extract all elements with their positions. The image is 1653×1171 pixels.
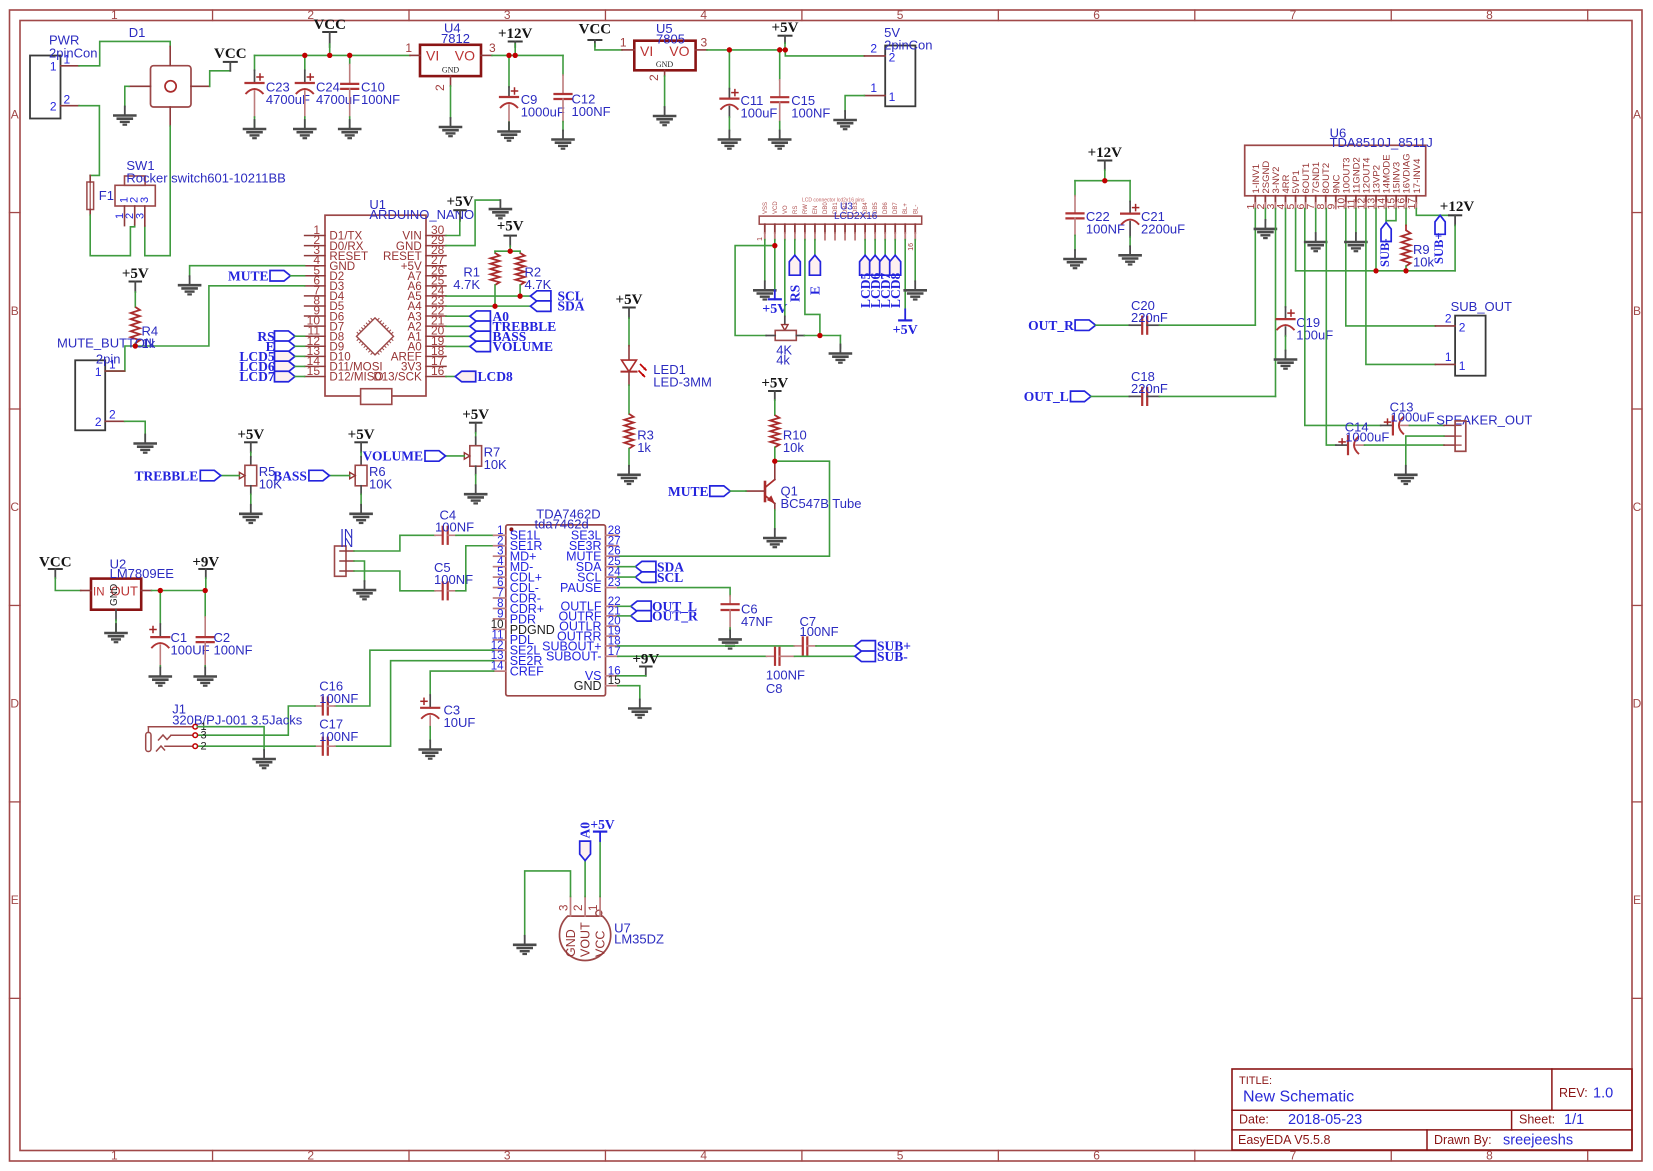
wire U6 pin5 to +12V rail bbox=[1295, 209, 1297, 271]
net flag SDA bbox=[530, 301, 551, 312]
junction dots top layer bbox=[302, 53, 307, 58]
net flag SUB- (U6) bbox=[1381, 223, 1391, 242]
net flag TREBBLE bbox=[470, 321, 491, 332]
svg-text:2: 2 bbox=[889, 51, 896, 65]
ground at D1 left bbox=[124, 107, 126, 116]
junction at C24 bbox=[302, 53, 307, 58]
svg-text:1: 1 bbox=[109, 358, 116, 372]
svg-text:+5V: +5V bbox=[762, 302, 787, 317]
net flag SDA (TDA) bbox=[635, 561, 656, 572]
net flag MUTE (Q1 base) bbox=[710, 486, 731, 497]
svg-text:GND: GND bbox=[574, 679, 602, 693]
net flag LCD6 (LCD) bbox=[870, 255, 881, 275]
capacitor C5 100NF bbox=[435, 590, 443, 592]
svg-text:3: 3 bbox=[139, 197, 151, 203]
wire U6 pin10 to SUB_OUT pin2 bbox=[1346, 209, 1436, 326]
wire C3 to ground bbox=[429, 727, 431, 741]
pin 1 of 5V connector bbox=[864, 95, 885, 97]
wire C11 top bbox=[728, 50, 730, 89]
wire U2 GND to ground bbox=[115, 620, 117, 633]
svg-text:+5V: +5V bbox=[893, 323, 918, 338]
svg-text:VOLUME: VOLUME bbox=[363, 449, 423, 464]
ground at C22 bbox=[1074, 250, 1076, 259]
microcontroller U1 ARDUINO_NANO bbox=[325, 215, 426, 396]
svg-text:100NF: 100NF bbox=[434, 572, 473, 587]
net flag LCD7 (LCD) bbox=[880, 255, 891, 275]
wire TDA PAUSE to C6 bbox=[618, 588, 730, 596]
wire U4 GND pin bbox=[450, 86, 452, 118]
net flag LCD7 bbox=[275, 371, 296, 382]
svg-text:GND: GND bbox=[109, 584, 120, 606]
svg-text:320B/PJ-001 3.5Jacks: 320B/PJ-001 3.5Jacks bbox=[172, 713, 303, 728]
svg-text:VO: VO bbox=[669, 43, 689, 59]
transistor Q1 BC547B bbox=[764, 482, 767, 501]
wire LCD6 flag to pin bbox=[295, 365, 305, 367]
wire U7 GND to ground bbox=[525, 871, 571, 936]
resistor R9 10k bbox=[1401, 230, 1410, 266]
wire C12 top bbox=[562, 55, 564, 75]
svg-text:2: 2 bbox=[870, 42, 877, 56]
wire IN pin1 to C4 bbox=[354, 535, 435, 551]
connector SUB_OUT bbox=[1455, 316, 1486, 376]
svg-text:sreejeeshs: sreejeeshs bbox=[1503, 1133, 1573, 1149]
wire U1 GND29 to ground bbox=[446, 200, 500, 245]
net flag A0 (U7) bbox=[580, 841, 591, 861]
svg-text:D: D bbox=[1633, 697, 1642, 711]
svg-text:3: 3 bbox=[489, 41, 496, 55]
svg-text:1: 1 bbox=[111, 1149, 118, 1163]
wire C15 top bbox=[779, 50, 781, 80]
svg-text:220nF: 220nF bbox=[1131, 381, 1168, 396]
wire R10 to Q1 collector bbox=[774, 447, 776, 461]
power amplifier U6 TDA8510J_8511J bbox=[1245, 145, 1426, 196]
wire C17 to J1 pin2 bbox=[197, 745, 315, 747]
wire A5 to SCL flag bbox=[446, 295, 530, 297]
junction C1 bbox=[158, 588, 163, 593]
LCD header U3 LCD2X16 bbox=[759, 216, 922, 224]
ground at R3 bbox=[628, 466, 630, 475]
net flag BASS bbox=[470, 331, 491, 342]
wire LCD pin6 EN bbox=[814, 240, 816, 256]
wire SPEAKER_OUT mid to ground bbox=[1406, 436, 1444, 466]
svg-text:2: 2 bbox=[1459, 321, 1466, 335]
wire +5V to LED1 bbox=[628, 318, 630, 346]
junction LCD VCD bbox=[772, 243, 777, 248]
svg-text:E: E bbox=[808, 286, 823, 295]
junction pot-RW bbox=[817, 333, 822, 338]
junction at C11 bbox=[727, 47, 732, 52]
svg-text:16: 16 bbox=[431, 364, 445, 378]
svg-text:IN: IN bbox=[340, 535, 353, 550]
svg-text:BC547B Tube: BC547B Tube bbox=[781, 496, 862, 511]
wire U1 GND4 to ground bbox=[190, 266, 305, 276]
wire C10 bottom bbox=[349, 117, 351, 129]
svg-text:100uF: 100uF bbox=[741, 106, 778, 121]
junction R2-SCL bbox=[518, 294, 523, 299]
wire U6 pin8 to C14 line bbox=[1326, 209, 1336, 446]
wire TDA OUTLF bbox=[618, 605, 631, 607]
svg-text:1: 1 bbox=[757, 237, 764, 241]
svg-text:6: 6 bbox=[1093, 1149, 1100, 1163]
svg-text:GND: GND bbox=[442, 66, 460, 75]
wire LCD pin5 RW bbox=[805, 240, 820, 336]
svg-text:4: 4 bbox=[700, 1149, 707, 1163]
ground at C24 bbox=[304, 120, 306, 129]
voltage regulator U4 7812 bbox=[420, 45, 481, 76]
wire +12V rail U6 bbox=[1296, 270, 1456, 272]
capacitor C21 2200uF bbox=[1129, 202, 1131, 214]
svg-text:2: 2 bbox=[433, 84, 447, 91]
wire +5V rail bbox=[707, 49, 785, 51]
svg-text:2018-05-23: 2018-05-23 bbox=[1288, 1112, 1362, 1128]
capacitor C11 100uF bbox=[728, 89, 730, 99]
svg-text:2: 2 bbox=[201, 741, 207, 753]
net flag E bbox=[275, 341, 296, 352]
svg-text:CREF: CREF bbox=[510, 665, 544, 679]
svg-text:BL-: BL- bbox=[913, 205, 919, 214]
svg-text:15: 15 bbox=[307, 364, 321, 378]
svg-text:1: 1 bbox=[64, 53, 71, 67]
svg-text:OUT_R: OUT_R bbox=[1028, 318, 1074, 333]
junction at C15 bbox=[777, 47, 782, 52]
ground at SPEAKER_OUT bbox=[1405, 466, 1407, 475]
pin 2 of 5V connector bbox=[864, 55, 885, 57]
wire C23 bottom bbox=[254, 117, 256, 129]
wire R1 bottom to SDA bbox=[494, 285, 496, 306]
svg-text:1: 1 bbox=[111, 8, 118, 22]
svg-text:EN: EN bbox=[813, 206, 819, 214]
ground at C10 bbox=[349, 120, 351, 129]
wire TDA SE2L from C16 bbox=[335, 650, 494, 706]
svg-text:OUT_L: OUT_L bbox=[1024, 389, 1069, 404]
wire A-pin to BASS flag bbox=[446, 335, 470, 337]
svg-text:C: C bbox=[10, 500, 19, 514]
wire U6 pin2 to ground bbox=[1264, 209, 1266, 220]
svg-text:MUTE_BUTTON: MUTE_BUTTON bbox=[57, 336, 154, 351]
svg-text:TITLE:: TITLE: bbox=[1239, 1075, 1272, 1087]
svg-text:SUB-: SUB- bbox=[877, 649, 908, 664]
wire C5 to TDA pin2 bbox=[456, 546, 494, 591]
wire D3 to mute button bbox=[105, 286, 304, 371]
junction at +12V stub bbox=[513, 53, 518, 58]
svg-text:3: 3 bbox=[559, 905, 571, 911]
junction at C10 bbox=[347, 53, 352, 58]
net flag LCD8 (LCD) bbox=[890, 255, 901, 275]
wire pot right to ground bbox=[804, 335, 840, 337]
capacitor C2 100NF bbox=[204, 617, 206, 637]
fuse F1 bbox=[87, 182, 94, 210]
ground at C21 bbox=[1129, 246, 1131, 255]
svg-text:1000uF: 1000uF bbox=[1391, 410, 1435, 425]
net flag LCD6 bbox=[275, 361, 296, 372]
ground at U6 pin7 bbox=[1315, 233, 1317, 242]
svg-text:OUT_R: OUT_R bbox=[652, 609, 698, 624]
svg-text:1k: 1k bbox=[637, 440, 651, 455]
capacitor C12 100NF bbox=[562, 75, 564, 94]
net flag OUT_R (TDA) bbox=[631, 611, 652, 622]
wire C1 top bbox=[159, 591, 161, 625]
svg-text:+9V: +9V bbox=[632, 652, 659, 668]
svg-text:1: 1 bbox=[620, 36, 627, 50]
svg-text:TREBBLE: TREBBLE bbox=[135, 468, 199, 483]
ground at C1 bbox=[159, 668, 161, 677]
voltage regulator U2 LM7809EE bbox=[91, 579, 141, 610]
capacitor C18 220nF bbox=[1129, 395, 1142, 397]
ground at C9 bbox=[508, 123, 510, 132]
svg-text:+5V: +5V bbox=[761, 376, 788, 392]
wire U6 pin15 to pin14 bbox=[1386, 209, 1396, 221]
ground at U1 GND4 bbox=[189, 276, 191, 285]
pin 1 of PWR bbox=[61, 65, 80, 67]
svg-text:2: 2 bbox=[647, 74, 661, 81]
svg-text:BASS: BASS bbox=[273, 468, 307, 483]
svg-text:New Schematic: New Schematic bbox=[1243, 1089, 1354, 1106]
svg-text:2: 2 bbox=[95, 415, 102, 429]
wire LCD data LCD7 bbox=[884, 240, 886, 256]
svg-text:+5V: +5V bbox=[122, 266, 149, 282]
wire LCD5 flag to pin bbox=[295, 355, 305, 357]
wire U5 GND pin bbox=[664, 76, 666, 107]
ground at U4 bbox=[450, 118, 452, 127]
wire LCD pin15 BL+ bbox=[904, 240, 906, 310]
svg-text:100UF: 100UF bbox=[171, 643, 210, 658]
svg-text:+12V: +12V bbox=[1088, 145, 1123, 161]
wire U7 VOUT to A0 flag bbox=[584, 861, 586, 897]
svg-text:+5V: +5V bbox=[497, 219, 524, 235]
wire C9 bottom bbox=[508, 122, 510, 131]
wire Q1 emitter to ground bbox=[774, 510, 776, 529]
pin 2 of PWR bbox=[61, 105, 80, 107]
wire R2 bottom to SCL bbox=[519, 285, 521, 296]
svg-text:+12V: +12V bbox=[1440, 199, 1475, 215]
svg-text:E: E bbox=[11, 893, 19, 907]
svg-text:RS: RS bbox=[793, 206, 799, 214]
wire LED1 to R3 bbox=[628, 385, 630, 414]
svg-text:SDA: SDA bbox=[558, 299, 585, 314]
svg-text:Rocker switch601-10211BB: Rocker switch601-10211BB bbox=[126, 171, 285, 186]
ground at U6 pin11 bbox=[1355, 233, 1357, 242]
pin 2 of MUTE_BUTTON bbox=[105, 420, 124, 422]
svg-text:100NF: 100NF bbox=[800, 624, 839, 639]
capacitor C7 100NF bbox=[794, 645, 803, 647]
wire E flag to pin bbox=[295, 345, 305, 347]
net flag SUB- bbox=[855, 651, 876, 662]
svg-text:1/1: 1/1 bbox=[1564, 1112, 1584, 1128]
svg-text:B: B bbox=[1633, 304, 1641, 318]
connector IN bbox=[335, 546, 347, 576]
svg-text:VSS: VSS bbox=[763, 202, 769, 214]
svg-text:C8: C8 bbox=[766, 681, 783, 696]
wire U6 pin16 to R9 bbox=[1405, 209, 1407, 226]
junction at VCC stub bbox=[327, 53, 332, 58]
svg-text:REV:: REV: bbox=[1559, 1086, 1588, 1100]
wire C7 to SUB+ flag bbox=[816, 645, 855, 647]
wire C24 top bbox=[304, 55, 306, 70]
svg-text:B: B bbox=[11, 304, 19, 318]
wire J1 pin1 to ground bbox=[197, 727, 264, 750]
power flag +5V (LCD VCD) bbox=[769, 298, 781, 300]
svg-text:VCD: VCD bbox=[773, 201, 779, 214]
pin 1 of MUTE_BUTTON bbox=[105, 370, 124, 372]
svg-text:IN: IN bbox=[93, 586, 105, 598]
wire +12V distribution bbox=[1075, 180, 1130, 182]
capacitor C10 100NF bbox=[349, 65, 351, 84]
wire IN pin3 to C5 bbox=[354, 571, 435, 591]
wire +5V to R10 bbox=[774, 400, 776, 415]
svg-text:4: 4 bbox=[700, 8, 707, 22]
net flag OUT_L (TDA) bbox=[631, 601, 652, 612]
wire A-pin to A0 flag bbox=[446, 315, 470, 317]
svg-text:+5V: +5V bbox=[616, 292, 643, 308]
svg-text:220nF: 220nF bbox=[1131, 310, 1168, 325]
wire MUTE flag to D2 bbox=[291, 275, 305, 277]
junction +12V bbox=[1102, 178, 1107, 183]
svg-text:DB6: DB6 bbox=[883, 202, 889, 214]
rocker switch SW1 bbox=[115, 185, 155, 206]
junction R1-SDA bbox=[492, 304, 497, 309]
junction at C9 bbox=[506, 53, 511, 58]
wire C12 bottom bbox=[562, 122, 564, 131]
wire D13 to LCD8 flag bbox=[446, 375, 455, 377]
wire U6 pin1 down to OUT_R line bbox=[1254, 209, 1256, 326]
voltage regulator U5 7805 bbox=[634, 41, 695, 71]
wire C22 bottom bbox=[1074, 235, 1076, 250]
capacitor C17 100NF bbox=[315, 745, 323, 747]
ground at LCD BL- bbox=[914, 281, 916, 290]
net flag SUB+ bbox=[855, 641, 876, 652]
svg-text:100uF: 100uF bbox=[1296, 328, 1333, 343]
wire U6 pin12 to SUB_OUT pin1 bbox=[1366, 209, 1436, 365]
connector PWR 2pinCon bbox=[30, 56, 61, 119]
net flag SCL (TDA) bbox=[635, 572, 656, 583]
wire C21 top bbox=[1129, 181, 1131, 202]
wire LCD pin2 VCD bbox=[774, 240, 776, 291]
svg-text:VI: VI bbox=[426, 48, 439, 64]
svg-text:VOLUME: VOLUME bbox=[493, 339, 553, 354]
wire C18 to U6 pin3 bbox=[1159, 395, 1275, 397]
svg-text:VCC: VCC bbox=[594, 931, 608, 957]
capacitor C3 10UF bbox=[429, 695, 431, 708]
ground at IN bbox=[364, 581, 366, 590]
svg-text:7812: 7812 bbox=[441, 31, 470, 46]
temperature sensor U7 LM35DZ bbox=[560, 916, 611, 960]
ground at C3 bbox=[429, 741, 431, 750]
wire C2 bottom bbox=[204, 666, 206, 668]
capacitor C9 1000uF bbox=[508, 87, 510, 97]
svg-text:3: 3 bbox=[134, 213, 146, 219]
svg-text:1000uF: 1000uF bbox=[521, 105, 565, 120]
svg-text:BL+: BL+ bbox=[903, 203, 909, 214]
capacitor C23 4700uF bbox=[254, 70, 256, 83]
svg-text:LCD8: LCD8 bbox=[888, 272, 903, 308]
svg-text:1: 1 bbox=[870, 81, 877, 95]
ground at Q1 bbox=[774, 529, 776, 538]
net flag RS (LCD) bbox=[789, 255, 800, 275]
svg-text:VO: VO bbox=[783, 205, 789, 214]
wire LCD7 flag to pin bbox=[295, 375, 305, 377]
svg-text:2: 2 bbox=[1445, 312, 1452, 326]
audio processor TDA7462D bbox=[506, 525, 606, 696]
svg-text:+5V: +5V bbox=[590, 817, 614, 832]
wire D1 left pin to ground bbox=[125, 85, 129, 87]
wire U6 pin13 to +12V rail bbox=[1375, 209, 1377, 271]
svg-text:D1: D1 bbox=[129, 25, 146, 40]
resistor R10 10k bbox=[770, 415, 779, 447]
svg-text:LCD2X16: LCD2X16 bbox=[834, 211, 878, 222]
power flag +5V (LCD BL+) bbox=[899, 319, 911, 321]
svg-text:10UF: 10UF bbox=[444, 715, 476, 730]
svg-text:Date:: Date: bbox=[1239, 1113, 1269, 1127]
svg-text:100NF: 100NF bbox=[361, 92, 400, 107]
wire C15 bottom bbox=[779, 122, 781, 131]
wire +12V rail bbox=[492, 54, 563, 56]
svg-text:+12V: +12V bbox=[498, 26, 533, 42]
net flag E (LCD) bbox=[809, 255, 820, 275]
svg-text:10k: 10k bbox=[783, 440, 804, 455]
ground at C19 bbox=[1285, 351, 1287, 360]
junction R4 bottom bbox=[133, 343, 138, 348]
ground at J1 bbox=[263, 750, 265, 759]
wire C21 bottom bbox=[1129, 237, 1131, 246]
svg-text:E: E bbox=[1633, 893, 1641, 907]
wire C22 top bbox=[1074, 181, 1076, 196]
svg-text:VOUT: VOUT bbox=[579, 922, 593, 957]
svg-text:47NF: 47NF bbox=[741, 614, 773, 629]
capacitor C6 47NF bbox=[729, 596, 731, 605]
capacitor C14 1000uF bbox=[1339, 441, 1345, 443]
ground at LCD VSS bbox=[764, 281, 766, 290]
wire TDA GND to ground bbox=[618, 686, 640, 700]
svg-text:C: C bbox=[1633, 500, 1642, 514]
capacitor C22 100NF bbox=[1074, 196, 1076, 214]
svg-text:4700uF: 4700uF bbox=[316, 92, 360, 107]
ground at contrast pot bbox=[839, 345, 841, 354]
title block bbox=[1232, 1069, 1632, 1150]
svg-text:SUBOUT-: SUBOUT- bbox=[546, 650, 602, 664]
capacitor C15 100NF bbox=[779, 80, 781, 97]
net flag VOLUME bbox=[470, 341, 491, 352]
svg-text:17-INV4: 17-INV4 bbox=[1412, 159, 1423, 194]
svg-text:A: A bbox=[11, 107, 19, 121]
svg-text:MUTE: MUTE bbox=[228, 269, 269, 284]
wire D1 bottom to SW1 pin3 bbox=[145, 126, 170, 256]
wire LCD pin16 BL- to ground bbox=[914, 240, 916, 282]
svg-text:LM35DZ: LM35DZ bbox=[614, 932, 664, 947]
svg-text:VCC: VCC bbox=[579, 22, 612, 38]
ground at C15 bbox=[779, 131, 781, 140]
wire A4 to SDA flag bbox=[446, 305, 530, 307]
net flag OUT_R bbox=[1075, 320, 1096, 331]
wire LCD pin1 VSS to ground bbox=[764, 240, 766, 282]
wire C16 to J1 pin3 bbox=[197, 706, 315, 735]
svg-text:VI: VI bbox=[640, 43, 653, 59]
svg-text:2: 2 bbox=[307, 1149, 314, 1163]
svg-text:100NF: 100NF bbox=[435, 520, 474, 535]
svg-text:2: 2 bbox=[50, 100, 57, 114]
wire U7 VCC to +5V bbox=[599, 841, 601, 897]
ground at C12 bbox=[562, 131, 564, 140]
wire R4 bottom bbox=[134, 343, 136, 346]
wire C9 top bbox=[508, 55, 510, 87]
wire +12V down to rail bbox=[1454, 225, 1456, 270]
svg-text:+5V: +5V bbox=[462, 407, 489, 423]
svg-text:TDA8510J_8511J: TDA8510J_8511J bbox=[1330, 135, 1433, 150]
wire TDA SE2R from C17 bbox=[335, 661, 494, 747]
wire TDA SCL bbox=[618, 576, 636, 578]
ground at MUTE_BUTTON bbox=[144, 435, 146, 444]
junction R1R2 top bbox=[508, 249, 513, 254]
net flag SUB+ (U6) bbox=[1435, 215, 1445, 234]
